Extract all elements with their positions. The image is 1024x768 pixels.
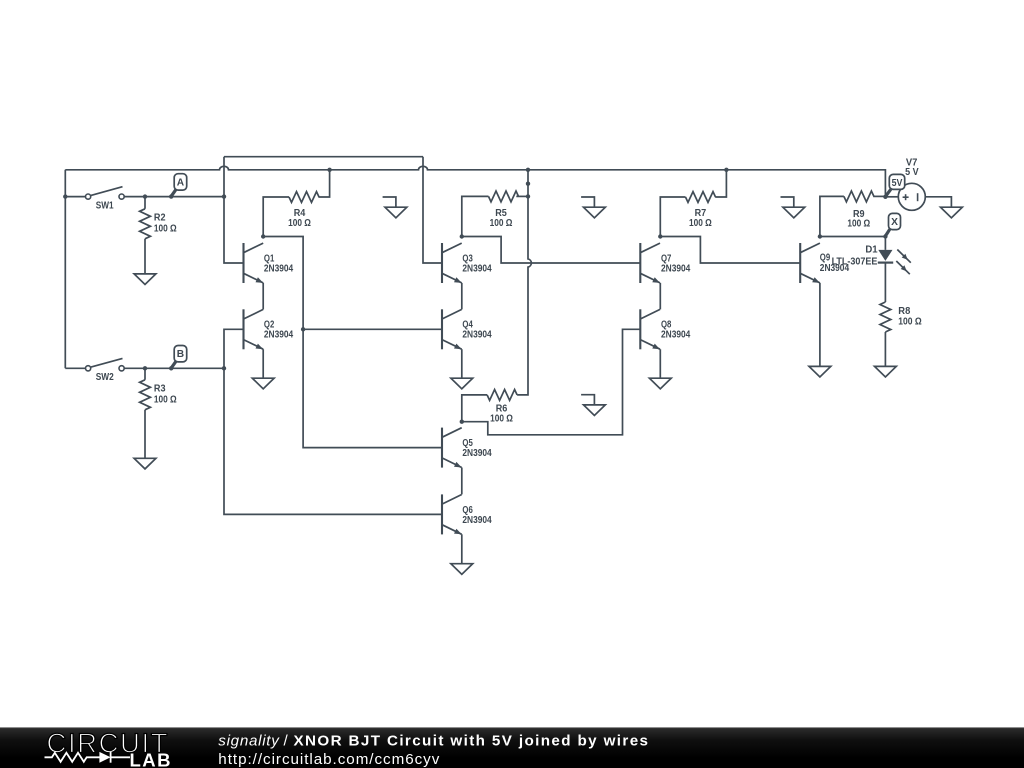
svg-text:signality: signality bbox=[218, 733, 280, 750]
wire Q1 collector to Q5 base bbox=[263, 237, 442, 448]
ground symbol near R9 bbox=[781, 197, 805, 218]
ground below R8 bbox=[875, 366, 897, 377]
resistor R5 bbox=[489, 191, 519, 229]
wire R8 to ground bbox=[884, 332, 886, 366]
svg-text:2N3904: 2N3904 bbox=[462, 263, 492, 274]
svg-text:SW2: SW2 bbox=[96, 372, 114, 383]
transistor Q7 bbox=[640, 243, 691, 283]
ground for V7 bbox=[941, 207, 963, 218]
resistor R9 bbox=[844, 191, 874, 229]
transistor Q2 bbox=[244, 309, 294, 349]
ground below Q6 bbox=[451, 564, 473, 575]
switch SW2 bbox=[86, 358, 125, 383]
resistor R4 bbox=[288, 192, 319, 229]
svg-text:D1: D1 bbox=[865, 244, 878, 255]
wire Q6 emitter bbox=[461, 534, 463, 563]
transistor Q4 bbox=[442, 309, 492, 349]
flag node A bbox=[171, 174, 187, 197]
wire V7 negative lead bbox=[925, 197, 951, 207]
wire Q3 collector to Q7 base bbox=[462, 237, 641, 264]
svg-text:A: A bbox=[177, 177, 185, 188]
svg-text:100 Ω: 100 Ω bbox=[847, 218, 870, 229]
transistor Q1 bbox=[244, 243, 294, 283]
svg-text:http://circuitlab.com/ccm6cyv: http://circuitlab.com/ccm6cyv bbox=[218, 751, 439, 768]
wire node A loop to Q3 base bbox=[224, 157, 442, 263]
ground symbol near R6 bbox=[581, 395, 605, 416]
wire Q3 emitter to Q4 collector bbox=[461, 283, 463, 310]
resistor R7 bbox=[686, 192, 716, 229]
svg-text:R3: R3 bbox=[154, 384, 166, 395]
wire node B to Q6 base bbox=[224, 368, 442, 514]
svg-text:2N3904: 2N3904 bbox=[462, 330, 492, 341]
svg-text:R8: R8 bbox=[898, 306, 911, 317]
ground symbol near R4 bbox=[383, 197, 407, 218]
wire R4 to 5V rail bbox=[319, 170, 330, 197]
svg-text:R2: R2 bbox=[154, 213, 166, 224]
transistor Q8 bbox=[640, 309, 691, 349]
svg-text:2N3904: 2N3904 bbox=[264, 263, 294, 274]
svg-text:100 Ω: 100 Ω bbox=[689, 218, 712, 229]
svg-text:100 Ω: 100 Ω bbox=[154, 394, 177, 405]
transistor Q5 bbox=[442, 428, 492, 468]
wire Q1 collector to R4 bbox=[263, 197, 289, 237]
flag node 5V bbox=[885, 174, 904, 196]
svg-text:100 Ω: 100 Ω bbox=[490, 414, 513, 425]
resistor R2 bbox=[140, 197, 177, 274]
ground symbol near R5 bbox=[581, 197, 605, 218]
wire Q7 collector to Q9 base bbox=[660, 237, 800, 264]
flag node X bbox=[885, 213, 900, 236]
svg-text:B: B bbox=[177, 349, 184, 360]
wire Q1 emitter to Q2 collector bbox=[262, 283, 264, 310]
ground below R2 bbox=[134, 274, 156, 285]
svg-text:2N3904: 2N3904 bbox=[264, 330, 294, 341]
wire node B to Q2 base bbox=[224, 329, 244, 368]
svg-text:2N3904: 2N3904 bbox=[661, 330, 691, 341]
ground below R3 bbox=[134, 458, 156, 469]
svg-text:2N3904: 2N3904 bbox=[661, 263, 691, 274]
wire Q5 collector to Q8 base bbox=[462, 329, 641, 435]
wire 5V rail bbox=[65, 166, 885, 196]
wire R7 to 5V rail bbox=[715, 170, 726, 197]
wire node B bbox=[124, 367, 224, 369]
svg-text:100 Ω: 100 Ω bbox=[490, 218, 513, 229]
logo resistor-diode glyph bbox=[45, 753, 100, 762]
svg-text:2N3904: 2N3904 bbox=[462, 448, 492, 459]
switch SW1 bbox=[86, 187, 125, 212]
wire X to D1 anode bbox=[884, 237, 886, 250]
svg-text:LAB: LAB bbox=[130, 749, 171, 768]
wire Q8 emitter bbox=[659, 349, 661, 378]
ground below Q9 bbox=[809, 366, 831, 377]
svg-text:100 Ω: 100 Ω bbox=[154, 224, 177, 235]
wire left input rail bbox=[64, 170, 66, 368]
transistor Q6 bbox=[442, 494, 492, 534]
svg-text:X: X bbox=[891, 217, 898, 228]
resistor R8 bbox=[880, 302, 922, 332]
wire Q7 emitter to Q8 collector bbox=[659, 283, 661, 310]
wire node A bbox=[124, 196, 224, 198]
wire node X bbox=[820, 236, 886, 238]
wire SW1 left bbox=[65, 196, 85, 198]
svg-text:XNOR BJT Circuit with 5V joine: XNOR BJT Circuit with 5V joined by wires bbox=[294, 733, 649, 750]
wire Q4 emitter bbox=[461, 349, 463, 378]
wire R9 to Q9 collector bbox=[820, 196, 844, 236]
resistor R3 bbox=[140, 368, 177, 458]
wire R6 to Q5 collector bbox=[462, 395, 487, 422]
ground below Q8 bbox=[649, 378, 671, 389]
wire SW2 left bbox=[65, 367, 85, 369]
wire D1 cathode to R8 bbox=[884, 263, 886, 302]
flag node B bbox=[171, 346, 187, 369]
transistor Q9 bbox=[800, 243, 849, 283]
ground below Q4 bbox=[451, 378, 473, 389]
svg-text:SW1: SW1 bbox=[96, 200, 114, 211]
voltage source V7 bbox=[898, 157, 925, 210]
wire Q9 emitter bbox=[819, 283, 821, 367]
svg-text:5 V: 5 V bbox=[905, 167, 919, 178]
wire node A to Q1 base bbox=[224, 157, 244, 263]
wire 528 riser bbox=[517, 170, 531, 395]
wire Q2 emitter bbox=[262, 349, 264, 378]
transistor Q3 bbox=[442, 243, 492, 283]
wire Q3 collector to R5 bbox=[462, 196, 489, 236]
ground below Q2 bbox=[252, 378, 274, 389]
resistor R6 bbox=[487, 390, 517, 425]
wire Q5 emitter to Q6 collector bbox=[461, 468, 463, 495]
svg-text:5V: 5V bbox=[892, 178, 903, 189]
wire R5 to x528 riser bbox=[516, 195, 528, 197]
wire R9 to V7 junction bbox=[873, 195, 885, 197]
svg-text:100 Ω: 100 Ω bbox=[288, 218, 311, 229]
LED D1 bbox=[832, 244, 911, 274]
svg-text:2N3904: 2N3904 bbox=[462, 515, 492, 526]
svg-text:100 Ω: 100 Ω bbox=[898, 317, 922, 328]
svg-text:LTL-307EE: LTL-307EE bbox=[832, 256, 878, 267]
wire node to Q4 base bbox=[303, 328, 442, 330]
wire V7 positive lead bbox=[885, 196, 898, 198]
wire Q7 collector to R7 bbox=[660, 197, 685, 237]
